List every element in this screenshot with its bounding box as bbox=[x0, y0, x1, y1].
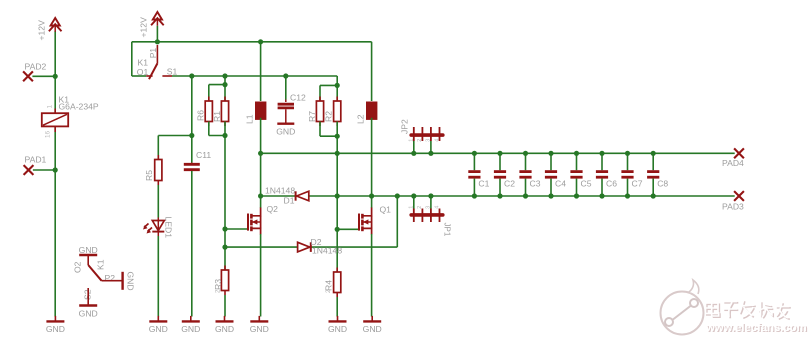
resistor R2 bbox=[334, 97, 341, 127]
svg-text:1N4148: 1N4148 bbox=[265, 185, 295, 195]
wire C11 to GND bbox=[191, 171, 193, 317]
label C3 bbox=[530, 179, 541, 189]
wire PAD2 to net bbox=[32, 75, 55, 77]
ground GND top of switch K1 P2 bbox=[79, 245, 98, 265]
wire gate net Q1 vertical bbox=[336, 136, 338, 272]
svg-text:S1: S1 bbox=[167, 67, 178, 77]
junction R6R1 top tie bbox=[222, 82, 227, 87]
wire box bottom to O1 bbox=[132, 75, 146, 77]
inductor L2 bbox=[367, 102, 377, 119]
label C12 bbox=[290, 93, 306, 103]
ground GND Q2 bbox=[250, 316, 269, 334]
svg-text:GND: GND bbox=[276, 127, 295, 137]
relay K1 coil G6A-234P bbox=[42, 109, 68, 133]
ground GND right rotated bbox=[123, 272, 136, 291]
resistor R4 bbox=[334, 268, 341, 298]
pad PAD1 X bbox=[24, 165, 34, 175]
capacitor C4 bbox=[545, 151, 557, 199]
pin 4 JP1 bbox=[434, 206, 440, 209]
wire C12 upper bbox=[285, 76, 287, 100]
label R2 bbox=[324, 111, 334, 122]
label K1 switch bbox=[96, 259, 106, 270]
wire D2 return vertical bbox=[396, 196, 398, 247]
svg-text:C5: C5 bbox=[581, 179, 592, 189]
junction C11 tap bbox=[189, 73, 194, 78]
label +12V right bbox=[139, 17, 149, 38]
wire Q1 gate bbox=[337, 228, 359, 230]
svg-text:PAD2: PAD2 bbox=[25, 62, 47, 72]
label O1 bbox=[137, 67, 149, 77]
junction R7R2 bottom tie bbox=[335, 134, 340, 139]
pin 1 relay top bbox=[47, 105, 54, 109]
junction JP1 pin1 bbox=[411, 193, 416, 198]
svg-text:C2: C2 bbox=[504, 179, 515, 189]
label 1N4148 D1 bbox=[265, 185, 295, 195]
wire C11 branch upper bbox=[191, 76, 193, 163]
pin 2 R3 bbox=[216, 289, 222, 293]
svg-text:GND: GND bbox=[363, 324, 382, 334]
label C11 bbox=[196, 150, 211, 160]
junction gate net on D1 wire bbox=[335, 193, 340, 198]
svg-text:1: 1 bbox=[47, 105, 54, 109]
junction C12 tap bbox=[283, 73, 288, 78]
label S2 bbox=[83, 289, 93, 300]
svg-text:PAD4: PAD4 bbox=[722, 158, 744, 168]
label JP1 bbox=[442, 223, 451, 237]
wire L2 lower bbox=[371, 118, 373, 208]
junction R7R2 rail y153 bbox=[335, 151, 340, 156]
pin 3 JP2 bbox=[426, 139, 432, 142]
pin 2 JP2 bbox=[417, 139, 423, 142]
label R3 bbox=[213, 279, 223, 290]
junction PAD1 node bbox=[53, 167, 58, 172]
label C8 bbox=[657, 179, 668, 189]
svg-text:2: 2 bbox=[417, 139, 423, 142]
wire JP2 pin1 stub bbox=[413, 141, 415, 153]
supply +12V arrow P1 right bbox=[151, 12, 164, 26]
capacitor C7 bbox=[621, 151, 633, 199]
label P1 bbox=[148, 48, 158, 59]
ground GND Q1 bbox=[363, 316, 382, 334]
label PAD4 bbox=[722, 158, 744, 168]
wire R3 to GND bbox=[224, 295, 226, 317]
junction L1 top rail bbox=[258, 39, 263, 44]
svg-text:C6: C6 bbox=[606, 179, 617, 189]
label D2 bbox=[311, 237, 322, 247]
label R1 bbox=[212, 111, 222, 122]
ground GND C11 bbox=[181, 316, 200, 334]
label O2 bbox=[73, 261, 83, 273]
wire R7R2 bottom tie bbox=[320, 122, 337, 137]
junction Q2 gate tee bbox=[222, 226, 227, 231]
junction D2 return on D1 wire bbox=[395, 193, 400, 198]
capacitor C12 bbox=[278, 100, 294, 124]
ground GND C12 bbox=[276, 124, 295, 137]
wire JP1 pin1 stub bbox=[413, 196, 415, 209]
junction JP1 pin3 bbox=[428, 193, 433, 198]
label R5 bbox=[144, 170, 154, 181]
svg-text:2: 2 bbox=[417, 206, 423, 209]
label R6 bbox=[196, 110, 206, 121]
wire Q2 gate bbox=[225, 228, 248, 230]
label L2 bbox=[356, 114, 366, 124]
svg-text:K1: K1 bbox=[138, 57, 149, 67]
label K1 top switch bbox=[138, 57, 149, 67]
label 1N4148 D2 bbox=[312, 245, 342, 255]
svg-text:+12V: +12V bbox=[139, 17, 149, 38]
svg-text:R2: R2 bbox=[324, 111, 334, 122]
wire LED1 to GND bbox=[157, 236, 159, 317]
junction JP2 pin3 bbox=[428, 151, 433, 156]
resistor R3 bbox=[221, 266, 228, 296]
wire rail y153 bbox=[261, 152, 735, 154]
svg-text:L2: L2 bbox=[356, 114, 366, 124]
inductor L1 bbox=[256, 102, 266, 119]
junction D2 left end bbox=[222, 245, 227, 250]
wire tee to R5 elbow bbox=[158, 136, 192, 160]
label +12V left bbox=[37, 20, 47, 41]
svg-text:LED1: LED1 bbox=[164, 217, 174, 239]
svg-text:O2: O2 bbox=[73, 261, 83, 273]
svg-text:GND: GND bbox=[328, 324, 347, 334]
wire PAD1 to net bbox=[33, 169, 55, 171]
svg-text:+12V: +12V bbox=[37, 20, 47, 41]
label R4 bbox=[324, 280, 334, 291]
svg-text:GND: GND bbox=[215, 324, 234, 334]
label D1 bbox=[284, 195, 295, 205]
capacitor C2 bbox=[494, 151, 506, 199]
capacitor C3 bbox=[519, 151, 531, 199]
svg-text:GND: GND bbox=[250, 324, 269, 334]
junction R6R1 bottom tie bbox=[222, 133, 227, 138]
capacitor C6 bbox=[596, 151, 608, 199]
diode D1 1N4148 bbox=[296, 191, 309, 201]
pad PAD2 X bbox=[23, 71, 33, 81]
label P2 bbox=[105, 273, 116, 283]
wire R6R1 bottom tie bbox=[209, 122, 225, 136]
junction R5 tee bbox=[189, 133, 194, 138]
pin 16 relay bottom bbox=[45, 130, 52, 138]
wire R5 to LED1 bbox=[157, 185, 159, 218]
label S1 bbox=[167, 67, 178, 77]
svg-text:GND: GND bbox=[181, 324, 200, 334]
label C5 bbox=[581, 179, 592, 189]
svg-text:GND: GND bbox=[79, 309, 98, 319]
pin 4 JP2 bbox=[434, 139, 440, 142]
label C1 bbox=[478, 179, 489, 189]
label JP2 bbox=[400, 119, 410, 134]
svg-text:C1: C1 bbox=[478, 179, 489, 189]
svg-text:R1: R1 bbox=[212, 111, 222, 122]
wire L1 lower bbox=[260, 118, 262, 154]
wire JP2 pin3 stub bbox=[430, 141, 432, 153]
svg-text:www.elecfans.com: www.elecfans.com bbox=[705, 322, 807, 334]
wire R7R2 top tie bbox=[320, 85, 337, 101]
transistor Q1 bbox=[359, 208, 372, 235]
svg-text:R5: R5 bbox=[144, 170, 154, 181]
svg-text:C11: C11 bbox=[196, 150, 211, 160]
svg-text:C12: C12 bbox=[290, 93, 306, 103]
svg-text:PAD3: PAD3 bbox=[722, 202, 744, 212]
svg-text:R6: R6 bbox=[196, 110, 206, 121]
wire +12V stem to rail bbox=[156, 26, 158, 42]
junction Q1 gate tee bbox=[335, 227, 340, 232]
pin 3 JP1 bbox=[426, 206, 432, 209]
wire rail y76 bbox=[172, 75, 337, 77]
wire L2 from top rail bbox=[371, 42, 373, 101]
label K1 relay bbox=[59, 95, 70, 105]
resistor R5 bbox=[155, 155, 162, 185]
resistor R6 bbox=[205, 97, 212, 127]
junction Q1 drain node bbox=[369, 193, 374, 198]
switch contact S2 stub bbox=[87, 288, 89, 305]
connector JP1 bbox=[411, 209, 443, 223]
svg-text:GND: GND bbox=[46, 324, 65, 334]
label G6A-234P bbox=[59, 102, 99, 112]
ground GND R3 bbox=[215, 316, 234, 334]
ground GND LED1 bbox=[149, 316, 168, 334]
svg-text:R7: R7 bbox=[307, 111, 317, 122]
supply +12V arrow P1 left bbox=[49, 18, 62, 32]
label R7 bbox=[307, 111, 317, 122]
svg-text:R4: R4 bbox=[324, 280, 334, 291]
transistor Q2 bbox=[248, 208, 261, 235]
svg-text:C8: C8 bbox=[657, 179, 668, 189]
junction JP2 pin1 bbox=[411, 151, 416, 156]
svg-text:R3: R3 bbox=[213, 279, 223, 290]
ground GND bottom of switch bbox=[79, 306, 98, 319]
svg-text:L1: L1 bbox=[245, 114, 255, 124]
label PAD1 bbox=[25, 155, 47, 165]
svg-text:PAD1: PAD1 bbox=[25, 155, 47, 165]
watermark elecfans logo bbox=[661, 280, 808, 335]
svg-text:4: 4 bbox=[434, 206, 440, 209]
ground GND left net bbox=[46, 316, 65, 334]
connector JP2 bbox=[411, 127, 443, 141]
svg-text:JP1: JP1 bbox=[442, 223, 451, 237]
resistor R7 bbox=[316, 97, 323, 127]
pad PAD4 X bbox=[734, 148, 744, 158]
svg-text:C4: C4 bbox=[555, 179, 566, 189]
label Q2 bbox=[267, 204, 279, 214]
label L1 bbox=[245, 114, 255, 124]
wire top rail y42 bbox=[132, 41, 372, 43]
pin 2 JP1 bbox=[417, 206, 423, 209]
wire gate net Q2 vertical bbox=[224, 136, 226, 271]
svg-text:Q1: Q1 bbox=[380, 205, 392, 215]
wire JP1 pin3 stub bbox=[430, 196, 432, 209]
capacitor C8 bbox=[647, 151, 659, 199]
junction R6R1 tap bbox=[222, 73, 227, 78]
wire R4 to GND bbox=[336, 297, 338, 317]
junction PAD2 node bbox=[53, 74, 58, 79]
svg-text:4: 4 bbox=[434, 139, 440, 142]
switch K1 S1 symbol bbox=[146, 45, 172, 79]
switch K1 lever P2 bbox=[88, 265, 101, 281]
wire L1 upper bbox=[260, 42, 262, 101]
svg-text:C3: C3 bbox=[530, 179, 541, 189]
svg-text:P1: P1 bbox=[148, 48, 158, 59]
wire D1 net y196 bbox=[261, 195, 735, 197]
pad PAD3 X bbox=[734, 191, 744, 201]
label Q1 bbox=[380, 205, 392, 215]
wire box left side bbox=[131, 42, 133, 76]
label PAD3 bbox=[722, 202, 744, 212]
pin 2 R4 bbox=[326, 289, 332, 293]
wire D2 net y247 bbox=[225, 246, 397, 248]
wire Q2 source to GND bbox=[260, 234, 262, 317]
label C6 bbox=[606, 179, 617, 189]
svg-text:16: 16 bbox=[45, 130, 52, 138]
wire Q1 source to GND bbox=[371, 234, 373, 317]
ground GND R4 bbox=[328, 316, 347, 334]
svg-text:GND: GND bbox=[79, 245, 98, 255]
junction R7R2 top tie bbox=[335, 83, 340, 88]
svg-text:Q2: Q2 bbox=[267, 204, 279, 214]
wire R6R1 drop bbox=[224, 76, 226, 85]
label C7 bbox=[632, 179, 643, 189]
junction +12V top rail bbox=[155, 39, 160, 44]
junction L1 rail y153 bbox=[258, 151, 263, 156]
label C4 bbox=[555, 179, 566, 189]
svg-text:GND: GND bbox=[126, 272, 136, 291]
capacitor C11 bbox=[184, 163, 200, 172]
label PAD2 bbox=[25, 62, 47, 72]
svg-text:K1: K1 bbox=[96, 259, 106, 270]
wire R6R1 top tie bbox=[209, 85, 225, 101]
svg-text:G6A-234P: G6A-234P bbox=[59, 102, 99, 112]
pin 1 JP2 bbox=[409, 139, 415, 142]
capacitor C5 bbox=[570, 151, 582, 199]
svg-text:1N4148: 1N4148 bbox=[312, 245, 342, 255]
wire P2 to right GND bbox=[102, 280, 123, 282]
wire rail corner to R7R2 bbox=[336, 76, 338, 85]
svg-text:JP2: JP2 bbox=[400, 119, 410, 134]
svg-text:O1: O1 bbox=[137, 67, 149, 77]
pin 1 JP1 bbox=[409, 206, 415, 209]
svg-text:C7: C7 bbox=[632, 179, 643, 189]
wire +12V net left vertical bbox=[54, 31, 56, 317]
label LED1 bbox=[164, 217, 174, 239]
capacitor C1 bbox=[468, 151, 480, 199]
LED LED1 bbox=[143, 218, 164, 237]
wire L1 to Q2 drain bbox=[260, 153, 262, 208]
svg-text:D1: D1 bbox=[284, 195, 295, 205]
resistor R1 bbox=[221, 97, 228, 127]
diode D2 1N4148 bbox=[298, 242, 311, 252]
junction Q2 drain node bbox=[258, 193, 263, 198]
label C2 bbox=[504, 179, 515, 189]
svg-text:GND: GND bbox=[149, 324, 168, 334]
